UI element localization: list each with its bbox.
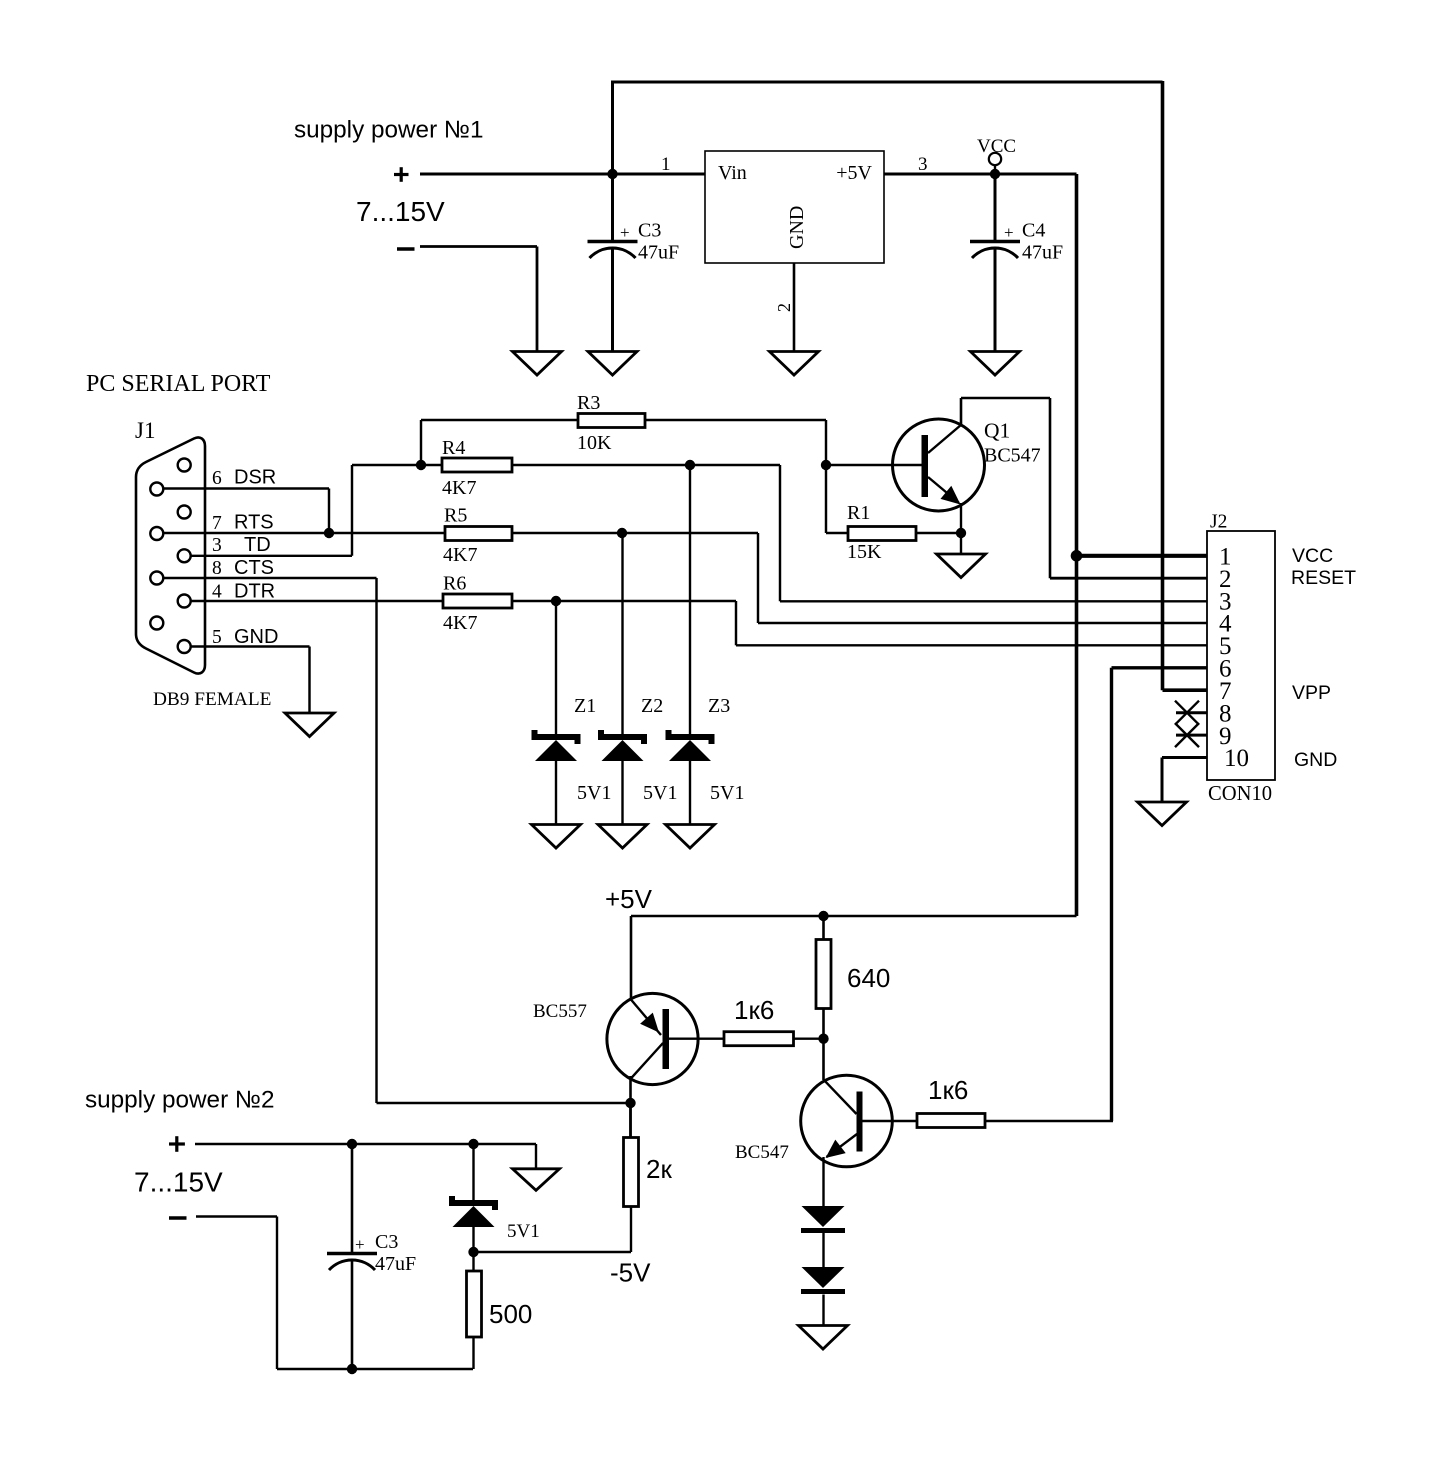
- svg-text:R5: R5: [444, 505, 467, 527]
- svg-text:R3: R3: [577, 392, 600, 414]
- svg-text:1к6: 1к6: [928, 1075, 968, 1105]
- svg-text:640: 640: [847, 963, 890, 993]
- svg-text:-5V: -5V: [610, 1258, 651, 1288]
- svg-text:BC547: BC547: [735, 1142, 789, 1163]
- svg-text:1к6: 1к6: [734, 995, 774, 1025]
- svg-text:J2: J2: [1210, 512, 1227, 533]
- svg-text:R4: R4: [442, 437, 465, 459]
- svg-text:6: 6: [212, 468, 222, 489]
- svg-text:GND: GND: [234, 626, 278, 648]
- svg-text:VPP: VPP: [1292, 682, 1331, 704]
- svg-text:Z1: Z1: [574, 695, 596, 717]
- svg-text:C3: C3: [638, 220, 661, 242]
- svg-text:C3: C3: [375, 1231, 398, 1253]
- svg-text:5V1: 5V1: [710, 782, 744, 804]
- svg-text:10K: 10K: [577, 432, 612, 454]
- svg-text:DSR: DSR: [234, 467, 276, 489]
- svg-text:C4: C4: [1022, 220, 1045, 242]
- svg-text:R6: R6: [443, 573, 466, 595]
- svg-text:+5V: +5V: [836, 162, 872, 184]
- svg-text:VCC: VCC: [1292, 545, 1333, 567]
- svg-text:4K7: 4K7: [443, 544, 477, 566]
- svg-text:1: 1: [661, 154, 671, 175]
- svg-text:Vin: Vin: [718, 162, 747, 184]
- svg-text:Z3: Z3: [708, 695, 730, 717]
- svg-text:BC547: BC547: [984, 445, 1041, 467]
- svg-text:3: 3: [212, 535, 222, 556]
- svg-text:GND: GND: [786, 206, 808, 249]
- svg-text:4K7: 4K7: [443, 612, 477, 634]
- svg-text:47uF: 47uF: [638, 242, 679, 264]
- svg-text:7...15V: 7...15V: [356, 196, 445, 227]
- svg-text:47uF: 47uF: [375, 1253, 416, 1275]
- svg-text:5V1: 5V1: [577, 782, 611, 804]
- svg-text:TD: TD: [244, 534, 271, 556]
- svg-text:500: 500: [489, 1299, 532, 1329]
- svg-text:CON10: CON10: [1208, 783, 1272, 805]
- svg-text:+: +: [1004, 223, 1014, 242]
- svg-text:5: 5: [212, 627, 222, 648]
- svg-text:RTS: RTS: [234, 512, 274, 534]
- svg-text:7: 7: [212, 513, 222, 534]
- svg-text:4K7: 4K7: [442, 477, 476, 499]
- svg-text:J1: J1: [135, 418, 155, 443]
- svg-text:47uF: 47uF: [1022, 242, 1063, 264]
- svg-text:+: +: [620, 223, 630, 242]
- svg-text:CTS: CTS: [234, 557, 274, 579]
- svg-text:3: 3: [918, 154, 928, 175]
- svg-text:8: 8: [212, 558, 222, 579]
- svg-text:5V1: 5V1: [643, 782, 677, 804]
- svg-text:VCC: VCC: [977, 136, 1016, 157]
- svg-text:DTR: DTR: [234, 581, 275, 603]
- svg-text:R1: R1: [847, 502, 870, 524]
- svg-text:2: 2: [774, 303, 794, 312]
- svg-text:5V1: 5V1: [507, 1221, 540, 1242]
- svg-text:RESET: RESET: [1291, 567, 1356, 589]
- svg-text:2к: 2к: [646, 1154, 672, 1184]
- svg-text:7...15V: 7...15V: [134, 1167, 223, 1198]
- svg-text:supply power №1: supply power №1: [294, 117, 484, 144]
- svg-text:BC557: BC557: [533, 1001, 587, 1022]
- svg-text:4: 4: [212, 582, 222, 603]
- svg-text:+5V: +5V: [605, 884, 653, 914]
- svg-text:10: 10: [1224, 745, 1249, 772]
- svg-text:PC SERIAL PORT: PC SERIAL PORT: [86, 371, 271, 397]
- svg-text:DB9 FEMALE: DB9 FEMALE: [153, 689, 271, 710]
- svg-text:15K: 15K: [847, 541, 882, 563]
- svg-text:GND: GND: [1294, 749, 1337, 771]
- svg-text:Z2: Z2: [641, 695, 663, 717]
- svg-text:Q1: Q1: [984, 419, 1010, 443]
- svg-text:supply power №2: supply power №2: [85, 1087, 275, 1114]
- svg-text:+: +: [355, 1235, 365, 1254]
